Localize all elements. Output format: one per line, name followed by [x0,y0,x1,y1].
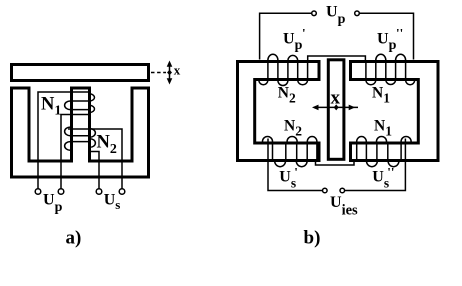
svg-text:a): a) [66,228,82,249]
top-left coil N2' (on upper limb) [259,54,308,85]
svg-text:x: x [174,63,181,78]
svg-text:N1: N1 [374,118,392,139]
svg-text:b): b) [304,228,321,249]
terminal Us-2 [119,189,125,195]
svg-text:Uies: Uies [330,194,358,219]
winding N2 coil [65,127,96,150]
svg-text:Up: Up [283,30,303,53]
wire Us-left [268,139,322,191]
terminal Up left (b) [312,11,317,16]
svg-text:'': '' [387,165,394,180]
svg-text:N1: N1 [372,84,390,105]
svg-text:': ' [294,165,298,180]
wire Up-right to core [359,13,413,59]
winding N2 lead 1 [68,129,122,189]
bottom-right coil N1'' (on lower limb) [357,137,411,167]
terminal Up-1 [35,189,41,195]
terminal Uies left [323,188,328,193]
svg-text:Us: Us [104,192,121,213]
right C-core (b) [351,62,439,161]
series link wire between primaries [308,56,366,61]
air gap dashed line [151,72,166,74]
bridge wire under bar (secondaries series link) [316,161,355,166]
svg-text:': ' [302,26,306,41]
svg-text:N2: N2 [278,84,296,105]
svg-text:'': '' [396,26,403,41]
terminal Up-2 [58,189,64,195]
terminal Uies right [340,188,345,193]
terminal Up right (b) [355,11,360,16]
E-core (a) [12,88,149,177]
left C-core (b) [238,62,320,161]
svg-text:N2: N2 [284,118,302,139]
svg-text:Up: Up [326,3,346,27]
winding N1 coil [65,94,95,113]
svg-text:Up: Up [377,30,397,53]
gap displacement arrow [167,61,173,85]
winding N1 lead 1 [38,92,90,189]
terminal Us-1 [96,189,102,195]
winding N2 lead 2 [90,147,99,189]
wire Up-left to core [260,13,312,59]
winding N1 lead 2 [61,115,88,189]
center plunger bar (b) [328,60,344,160]
wire Us-right [345,139,405,191]
bottom-left coil N2'' (on lower limb) [263,137,317,167]
armature bar (movable core) [12,65,149,81]
top-right coil N1' (on upper limb) [366,54,415,84]
svg-text:x: x [331,88,341,109]
plunger displacement arrow (b) [312,104,358,110]
svg-text:Up: Up [43,192,63,216]
svg-text:N1: N1 [41,95,61,119]
